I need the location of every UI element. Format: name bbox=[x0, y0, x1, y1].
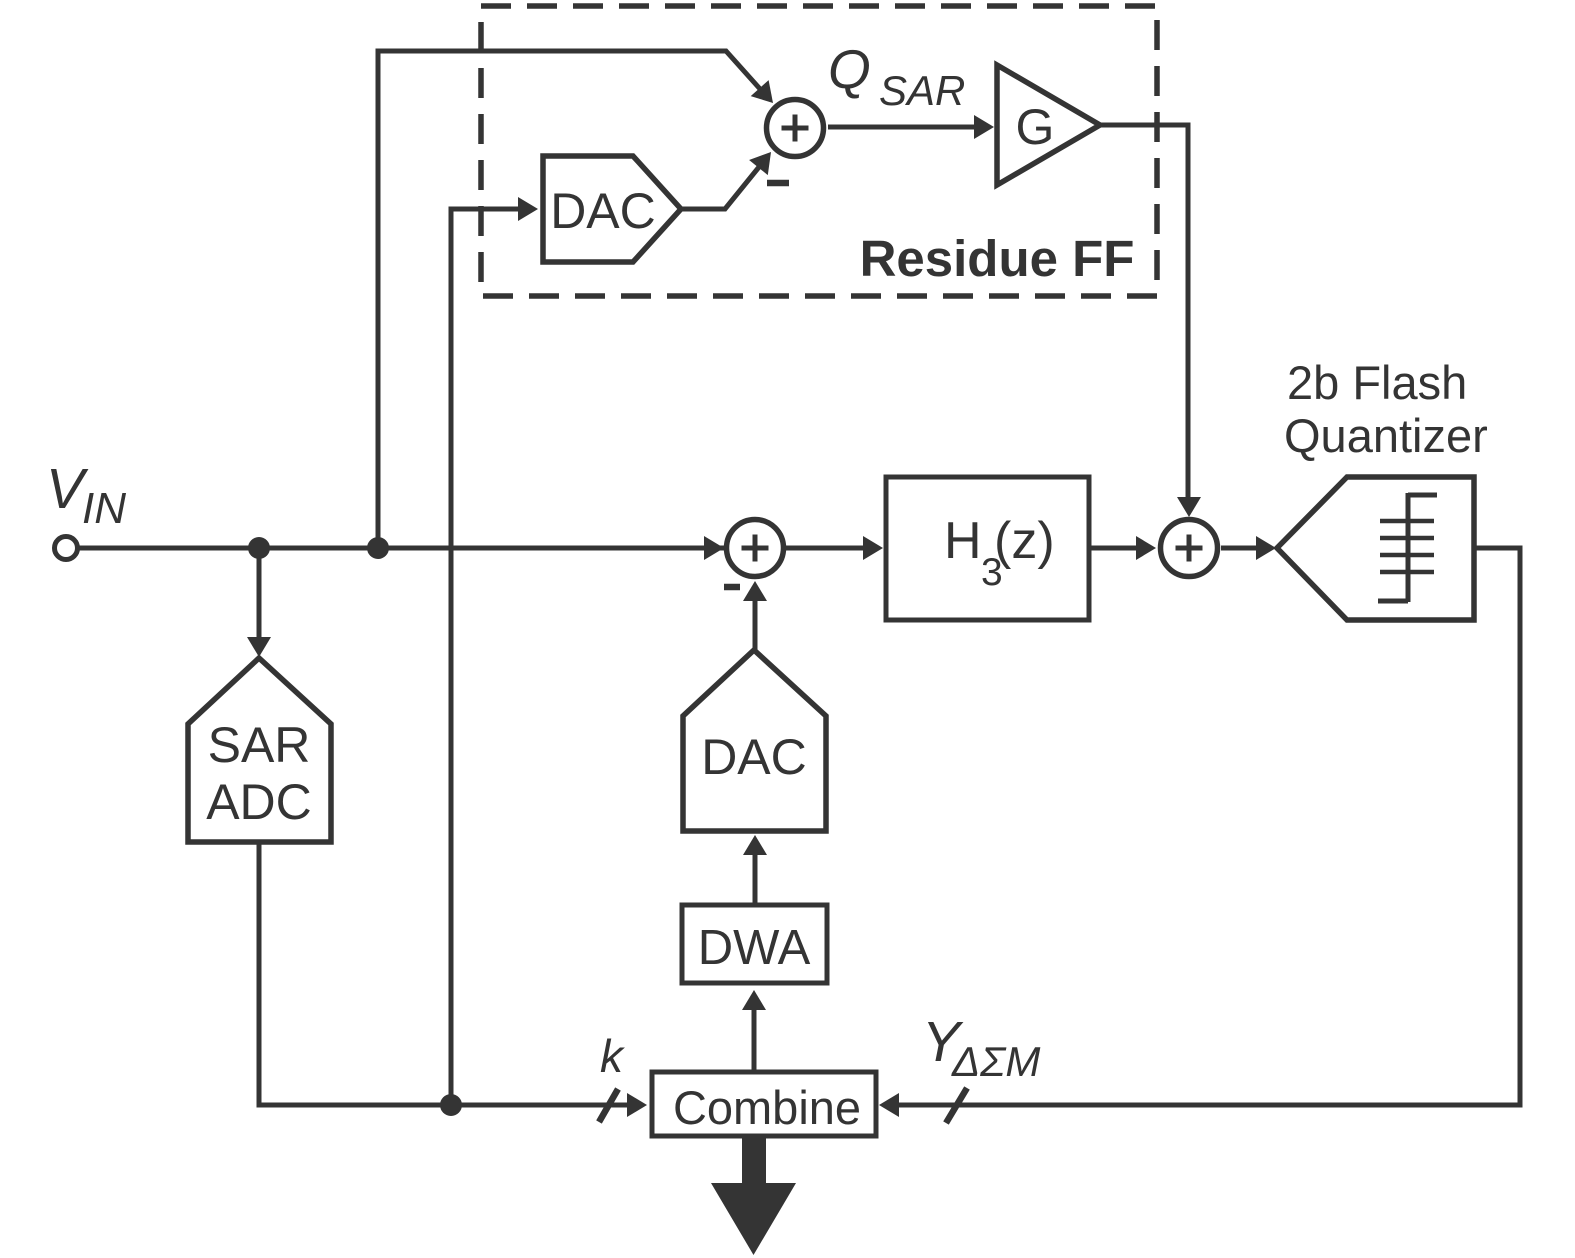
svg-text:Quantizer: Quantizer bbox=[1284, 409, 1488, 462]
svg-text:Residue FF: Residue FF bbox=[860, 230, 1135, 287]
svg-text:DAC: DAC bbox=[550, 183, 656, 239]
svg-text:Combine: Combine bbox=[673, 1081, 861, 1134]
svg-text:DWA: DWA bbox=[698, 921, 811, 975]
svg-text:IN: IN bbox=[82, 484, 126, 533]
svg-text:SAR: SAR bbox=[208, 717, 311, 773]
svg-text:SAR: SAR bbox=[879, 67, 965, 114]
svg-text:H: H bbox=[944, 512, 982, 570]
svg-text:2b Flash: 2b Flash bbox=[1287, 356, 1467, 409]
svg-text:DAC: DAC bbox=[701, 729, 807, 785]
svg-text:(z): (z) bbox=[994, 512, 1055, 570]
svg-text:ΔΣM: ΔΣM bbox=[951, 1038, 1040, 1085]
svg-text:Q: Q bbox=[828, 38, 871, 100]
svg-text:k: k bbox=[600, 1030, 625, 1082]
svg-text:ADC: ADC bbox=[206, 774, 312, 830]
svg-text:G: G bbox=[1016, 99, 1055, 155]
